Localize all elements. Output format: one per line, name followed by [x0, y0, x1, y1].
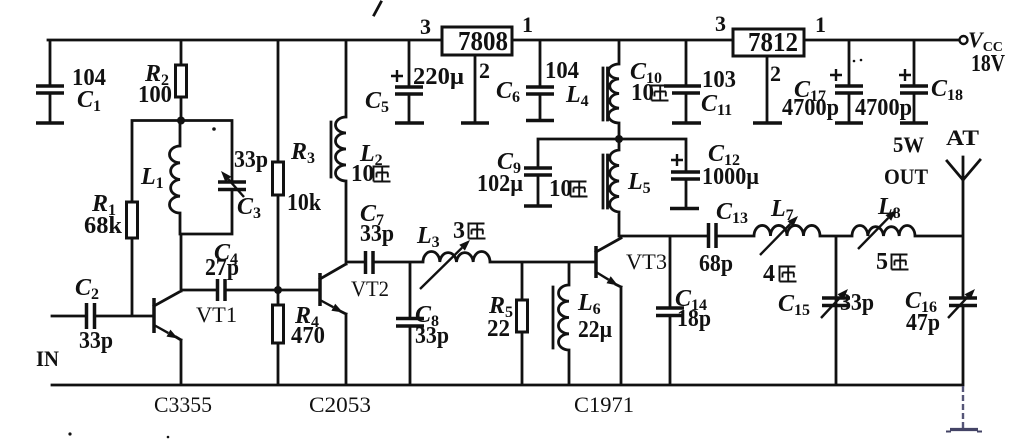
svg-text:5W: 5W [893, 132, 924, 157]
svg-text:2: 2 [479, 58, 490, 83]
svg-text:47p: 47p [906, 310, 940, 336]
svg-text:VT2: VT2 [351, 276, 389, 301]
svg-text:103: 103 [702, 67, 736, 93]
svg-text:68p: 68p [699, 251, 733, 277]
svg-text:470: 470 [291, 323, 325, 349]
svg-text:22µ: 22µ [578, 317, 612, 343]
svg-text:7808: 7808 [458, 26, 508, 56]
svg-text:C2053: C2053 [309, 392, 371, 417]
svg-text:5: 5 [876, 249, 888, 275]
svg-text:OUT: OUT [884, 164, 928, 189]
svg-text:C1971: C1971 [574, 392, 634, 417]
svg-text:104: 104 [545, 58, 579, 84]
svg-text:10: 10 [549, 176, 572, 202]
svg-text:10: 10 [631, 80, 654, 106]
svg-text:3: 3 [715, 11, 726, 36]
svg-text:VT3: VT3 [626, 249, 667, 274]
svg-text:C3355: C3355 [154, 392, 212, 417]
svg-text:VT1: VT1 [196, 302, 237, 327]
svg-text:100: 100 [138, 82, 172, 108]
svg-text:68k: 68k [84, 213, 123, 239]
svg-text:AT: AT [946, 125, 979, 150]
svg-text:IN: IN [36, 346, 59, 371]
svg-text:27p: 27p [205, 255, 239, 281]
svg-text:220µ: 220µ [413, 64, 464, 90]
svg-text:2: 2 [770, 61, 781, 86]
svg-text:4700p: 4700p [855, 95, 912, 121]
svg-text:18V: 18V [971, 51, 1006, 77]
svg-text:1: 1 [522, 12, 533, 37]
svg-text:33p: 33p [415, 323, 449, 349]
svg-text:4: 4 [763, 261, 775, 287]
svg-text:10: 10 [351, 161, 374, 187]
svg-text:1: 1 [815, 12, 826, 37]
svg-text:7812: 7812 [748, 27, 798, 57]
svg-text:33p: 33p [840, 290, 874, 316]
svg-text:10k: 10k [287, 190, 322, 216]
svg-text:18p: 18p [677, 306, 711, 332]
svg-text:3: 3 [420, 14, 431, 39]
svg-text:33p: 33p [79, 328, 113, 354]
svg-text:22: 22 [487, 316, 510, 342]
svg-text:1000µ: 1000µ [702, 164, 759, 190]
svg-text:33p: 33p [360, 221, 394, 247]
svg-text:3: 3 [453, 218, 465, 244]
svg-text:33p: 33p [234, 147, 268, 173]
svg-text:4700p: 4700p [782, 95, 839, 121]
svg-text:102µ: 102µ [477, 171, 523, 197]
